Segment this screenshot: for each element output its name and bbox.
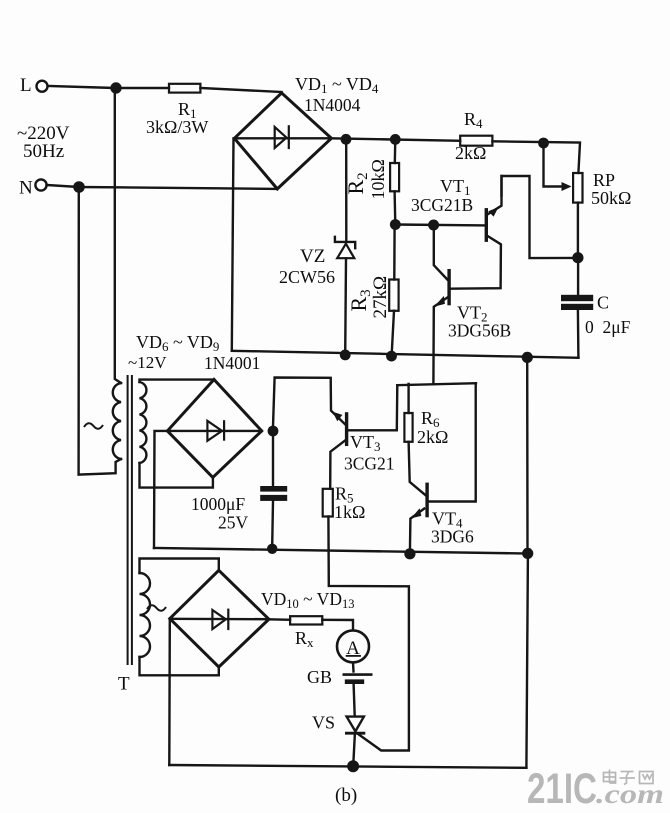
svg-text:L: L: [20, 75, 32, 96]
svg-text:2kΩ: 2kΩ: [455, 143, 486, 163]
svg-text:(b): (b): [335, 785, 357, 806]
svg-text:VD6 ~ VD9: VD6 ~ VD9: [136, 332, 219, 354]
svg-text:3kΩ/3W: 3kΩ/3W: [146, 117, 208, 137]
svg-text:C: C: [597, 293, 609, 313]
svg-text:Rx: Rx: [295, 628, 314, 650]
svg-text:21IC: 21IC: [527, 765, 597, 813]
svg-text:~12V: ~12V: [128, 353, 167, 372]
svg-text:2kΩ: 2kΩ: [417, 427, 448, 447]
svg-text:25V: 25V: [218, 513, 249, 533]
svg-text:VS: VS: [312, 713, 335, 733]
svg-text:VD10 ~ VD13: VD10 ~ VD13: [261, 589, 354, 611]
svg-text:VT3: VT3: [350, 432, 381, 454]
svg-text:3CG21: 3CG21: [344, 454, 395, 474]
svg-text:0 2μF: 0 2μF: [585, 317, 631, 337]
svg-text:N: N: [19, 178, 33, 199]
svg-text:R4: R4: [464, 109, 483, 131]
svg-text:RP: RP: [593, 170, 615, 190]
svg-text:1N4001: 1N4001: [204, 353, 260, 373]
svg-text:GB: GB: [307, 667, 332, 687]
svg-text:1N4004: 1N4004: [304, 95, 361, 115]
svg-text:50Hz: 50Hz: [23, 141, 64, 162]
svg-text:A: A: [346, 638, 360, 659]
svg-text:10kΩ: 10kΩ: [368, 159, 388, 199]
svg-text:50kΩ: 50kΩ: [591, 188, 631, 208]
svg-text:3DG56B: 3DG56B: [448, 321, 511, 341]
svg-text:27kΩ: 27kΩ: [370, 276, 391, 319]
svg-text:VD1 ~ VD4: VD1 ~ VD4: [295, 74, 379, 96]
svg-text:3DG6: 3DG6: [431, 527, 474, 547]
svg-text:1kΩ: 1kΩ: [334, 502, 365, 522]
svg-text:VZ: VZ: [300, 246, 325, 267]
svg-text:T: T: [118, 674, 130, 695]
svg-text:3CG21B: 3CG21B: [411, 195, 473, 215]
svg-text:2CW56: 2CW56: [279, 267, 335, 287]
svg-text:1000μF: 1000μF: [191, 494, 245, 514]
